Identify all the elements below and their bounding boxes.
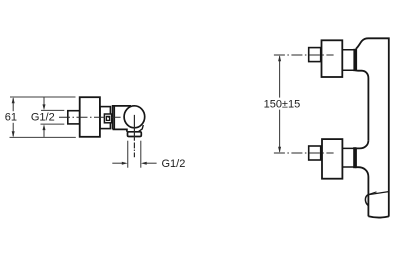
left view: boss small square	[104, 114, 111, 123]
top escutcheon	[322, 40, 343, 77]
left view: escutcheon	[80, 97, 100, 137]
dimension G1/2 bottom: extension lines	[128, 141, 141, 168]
left view horizontal centerline	[59, 116, 121, 118]
dimension G1/2 bottom: dimension line with outside arrows	[112, 162, 156, 164]
left view: knob circle	[124, 106, 145, 128]
right view bottom centerline	[274, 152, 334, 154]
wall bar outline	[356, 38, 389, 216]
bottom neck	[342, 148, 353, 167]
bar bottom cap	[368, 216, 388, 217]
dimension G1/2 left: extension lines	[41, 110, 65, 124]
bottom escutcheon	[322, 139, 342, 179]
bar lower break line	[369, 192, 389, 195]
left view: boss rectangle	[100, 107, 110, 129]
left view: valve body block	[113, 106, 131, 132]
dimension G1/2 left: dimension line	[43, 98, 45, 137]
svg-text:G1/2: G1/2	[162, 158, 186, 170]
top neck	[342, 50, 354, 70]
bottom nut	[309, 146, 321, 160]
svg-text:G1/2: G1/2	[31, 112, 55, 124]
svg-text:150±15: 150±15	[264, 98, 301, 110]
right view top centerline	[274, 54, 334, 56]
hook bulge	[365, 194, 368, 205]
svg-text:61: 61	[5, 112, 17, 124]
dimension 61: extension lines	[10, 97, 76, 137]
bottom flange	[354, 148, 356, 168]
left view: boss inner mark	[106, 116, 109, 120]
dimension G1/2 left: arrows	[43, 104, 46, 130]
dimension 61: arrows	[12, 97, 15, 137]
top nut	[309, 48, 321, 62]
left view: elbow chamfer	[138, 125, 143, 132]
dimension 150±15: arrows	[278, 55, 281, 153]
top flange	[354, 49, 356, 70]
dimension 150±15: dimension line	[279, 56, 281, 152]
right view	[309, 38, 389, 217]
left view: inlet nipple	[68, 111, 80, 124]
dimension 61: dimension line	[12, 98, 14, 136]
left view vertical centerline	[133, 115, 135, 157]
left view: outlet nut	[128, 132, 142, 137]
